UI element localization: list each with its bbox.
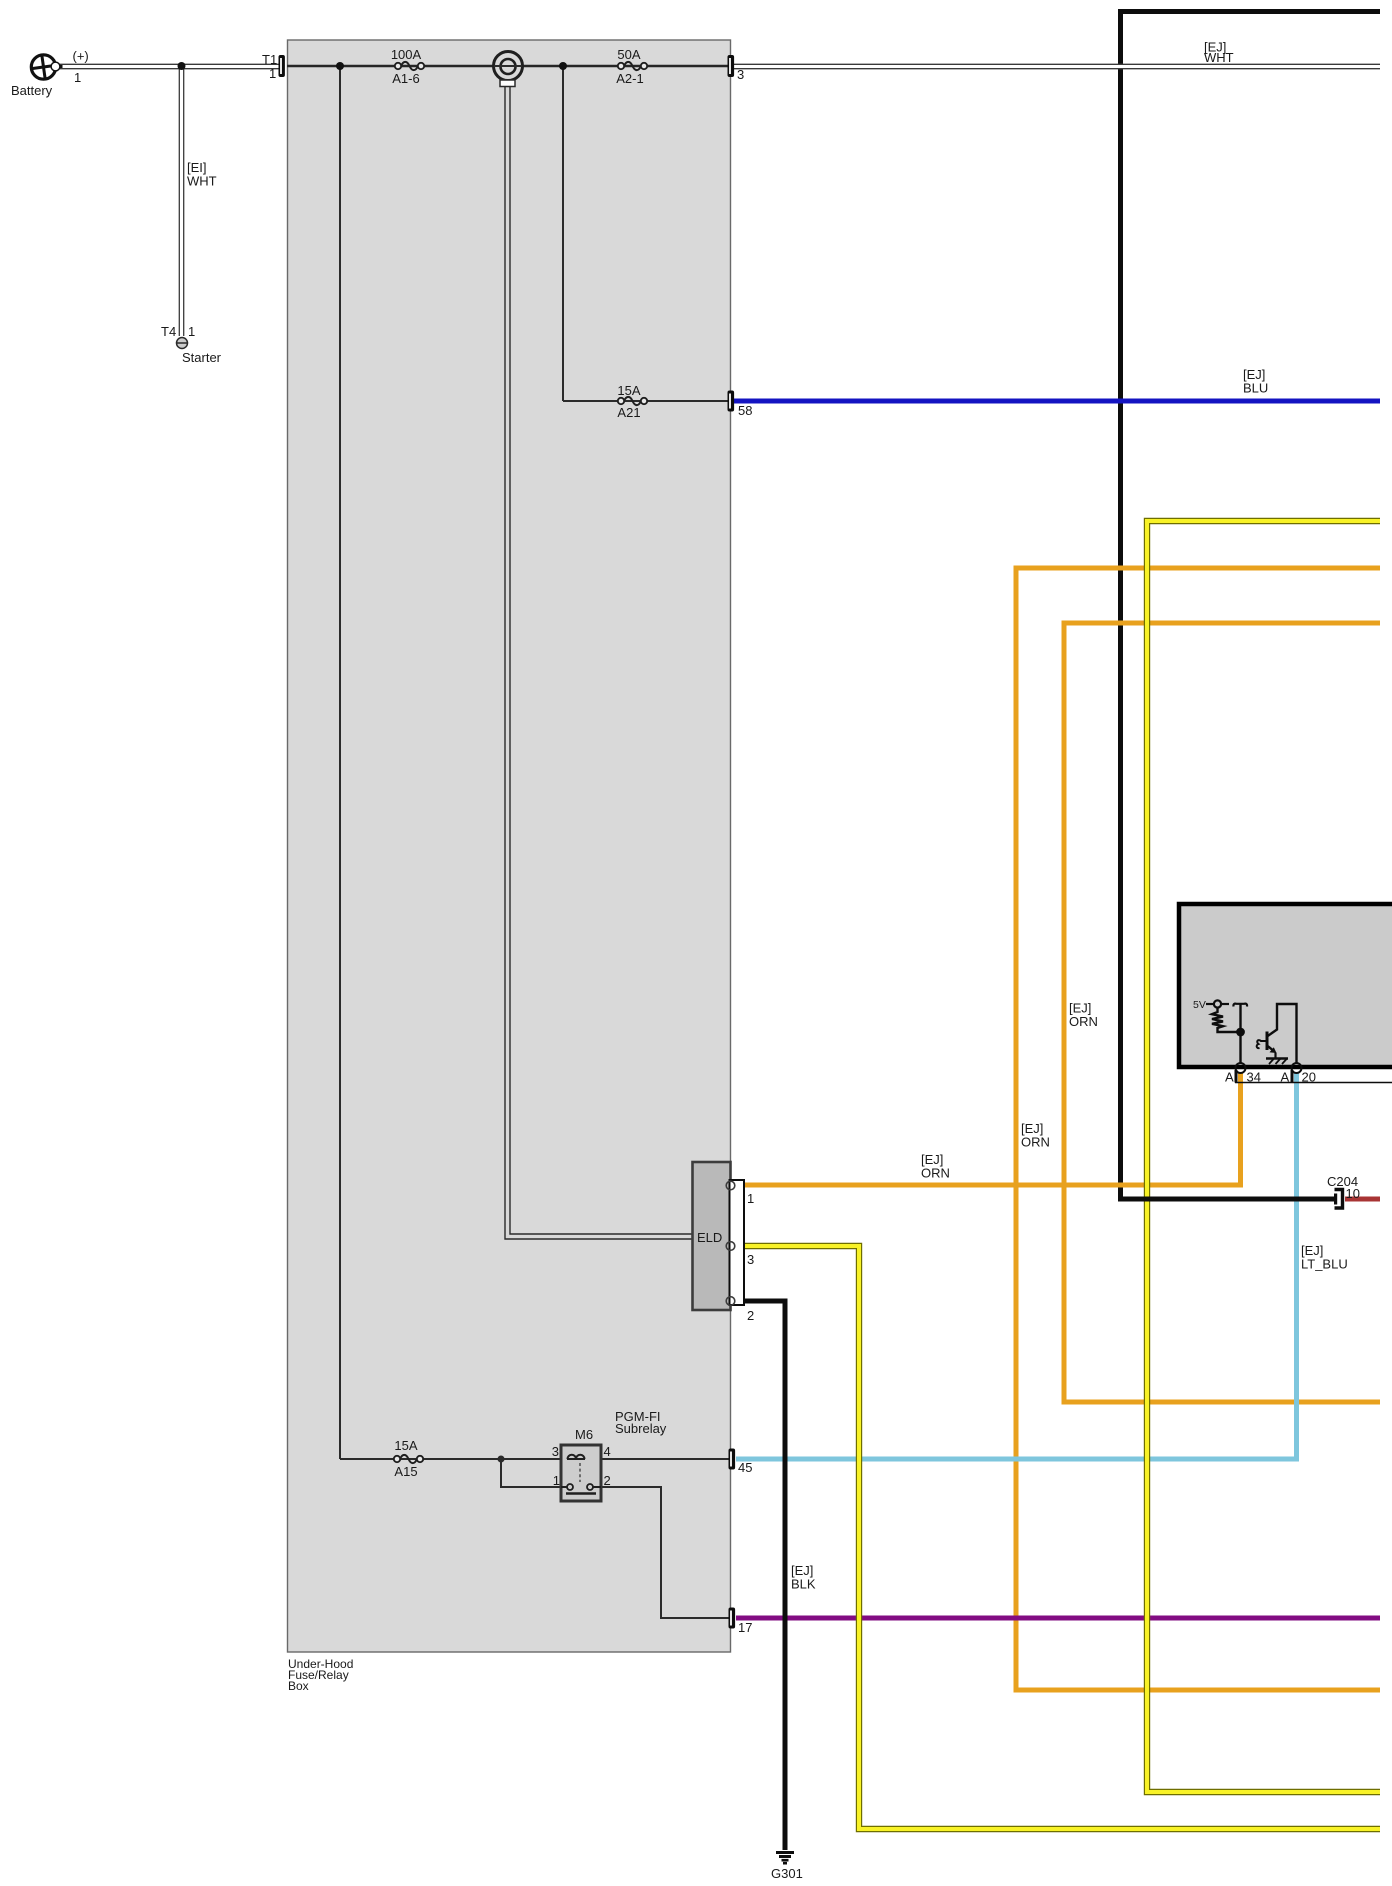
svg-text:1: 1 bbox=[747, 1191, 754, 1206]
wire: vertical feed x=340 from bus down to 15A A15 fuse row bbox=[339, 66, 341, 1459]
svg-text:ORN: ORN bbox=[1069, 1014, 1098, 1029]
svg-text:Subrelay: Subrelay bbox=[615, 1421, 667, 1436]
wire: junction drop to relay contact pin 1 bbox=[501, 1459, 566, 1487]
wire [EJ] WHT: pin 3 to right edge (white double line) bbox=[734, 65, 1380, 68]
svg-text:58: 58 bbox=[738, 403, 752, 418]
svg-text:ELD: ELD bbox=[697, 1230, 722, 1245]
ECM internals: transistor Q (NPN) bbox=[1257, 1004, 1297, 1064]
ground G301 bbox=[776, 1853, 794, 1864]
svg-text:50A: 50A bbox=[617, 47, 640, 62]
fuse 15A A21 bbox=[618, 397, 647, 405]
svg-text:ORN: ORN bbox=[1021, 1135, 1050, 1150]
wire [EI] WHT: battery junction down to starter T4 (double line) bbox=[180, 66, 183, 336]
svg-text:4: 4 bbox=[604, 1444, 611, 1459]
svg-text:1: 1 bbox=[553, 1473, 560, 1488]
ECM internals: to-other-circuit cap bbox=[1233, 1004, 1247, 1007]
svg-text:A: A bbox=[1225, 1070, 1234, 1085]
ECM/PCM internal circuit box bbox=[1179, 904, 1392, 1067]
svg-text:Starter: Starter bbox=[182, 350, 222, 365]
wire: relay contact pin2 out, down, to pin 17 bbox=[593, 1487, 729, 1618]
svg-text:1: 1 bbox=[74, 70, 81, 85]
wire: 15A A15 row to relay bbox=[340, 1458, 567, 1460]
ECM internals: transistor ground bbox=[1266, 1059, 1288, 1065]
ECM pin A34 connector bar bbox=[1235, 1070, 1238, 1083]
fuse 50A A2-1 bbox=[618, 62, 647, 70]
junction node at x=563 bbox=[559, 62, 567, 70]
svg-text:3: 3 bbox=[552, 1444, 559, 1459]
svg-text:A2-1: A2-1 bbox=[616, 71, 643, 86]
wire [EJ] BLU from pin 58 to right edge bbox=[734, 399, 1380, 404]
svg-text:LT_BLU: LT_BLU bbox=[1301, 1257, 1348, 1272]
wire [EJ] RED (dark red) from C204 to right edge bbox=[1345, 1197, 1380, 1202]
junction node at battery tap bbox=[178, 62, 186, 70]
connector bar pin 3 bbox=[728, 55, 735, 77]
svg-text:1: 1 bbox=[269, 66, 276, 81]
ECM pin A20 connector bar bbox=[1291, 1070, 1294, 1083]
ELD connector strip bbox=[730, 1180, 745, 1305]
wire: thick black vertical from top edge down (to C204 row) bbox=[1121, 12, 1381, 1200]
Under-Hood Fuse/Relay Box bbox=[288, 40, 731, 1652]
ELD box bbox=[693, 1162, 731, 1310]
ECM internals: 5V supply terminal bbox=[1206, 1000, 1229, 1007]
svg-text:15A: 15A bbox=[617, 383, 640, 398]
ECM connector A bracket line bbox=[1235, 1082, 1392, 1084]
relay dashed link bbox=[579, 1463, 581, 1482]
relay coil bbox=[567, 1458, 585, 1460]
svg-text:(+): (+) bbox=[73, 49, 89, 64]
connector bar T1 bbox=[279, 55, 285, 77]
wire: ELD sensor double-line from ring down into ELD box bbox=[505, 86, 693, 1239]
wire [EJ] LT_BLU: ECM pin A20 down x=1296.5, left to pin 45 bbox=[736, 1072, 1297, 1459]
wire [EJ] YEL 2: from right edge y=521 left, down x=1147, right out at y=1792 bbox=[1147, 521, 1380, 1792]
ELD pin 1 circle bbox=[726, 1181, 735, 1190]
svg-text:100A: 100A bbox=[391, 47, 422, 62]
wire: thick black horizontal to C204 pin 10 bbox=[1118, 1197, 1337, 1202]
svg-text:A: A bbox=[1281, 1070, 1290, 1085]
svg-text:WHT: WHT bbox=[187, 174, 217, 189]
wire: horizontal to 15A A21 fuse and pin 58 bbox=[563, 400, 728, 402]
wire [EJ] ORN C: from ELD pin 1 right, up to ECM pin A34 bbox=[734, 1072, 1241, 1185]
svg-text:17: 17 bbox=[738, 1620, 752, 1635]
svg-text:M6: M6 bbox=[575, 1427, 593, 1442]
ECM internals: sense line down to pin A34 bbox=[1239, 1004, 1241, 1064]
wire [EJ] BLK: from ELD pin 2 right, down x=785 to ground G301 bbox=[734, 1301, 785, 1850]
wire [EJ] ORN A: from right edge y=568 left, down x=1016, right out at y=1690 bbox=[1016, 568, 1380, 1690]
relay contact circles bbox=[561, 1486, 567, 1488]
ELD sensor ring on main bus bbox=[494, 52, 523, 87]
svg-text:2: 2 bbox=[747, 1308, 754, 1323]
fuse 100A A1-6 bbox=[395, 62, 424, 70]
svg-text:A1-6: A1-6 bbox=[392, 71, 419, 86]
starter T4 terminal symbol bbox=[177, 338, 188, 349]
wire: relay coil pin4 out to pin 45 bbox=[585, 1458, 729, 1460]
svg-text:1: 1 bbox=[188, 324, 195, 339]
ECM pin A20 circle bbox=[1292, 1063, 1302, 1073]
svg-text:5V: 5V bbox=[1193, 999, 1206, 1011]
ECM internals: junction dot bbox=[1236, 1028, 1245, 1037]
connector bar pin 58 bbox=[728, 391, 735, 412]
svg-text:Box: Box bbox=[288, 1679, 309, 1693]
junction dot A15 row bbox=[498, 1456, 505, 1463]
svg-text:G301: G301 bbox=[771, 1866, 803, 1881]
svg-text:10: 10 bbox=[1346, 1186, 1360, 1201]
C204 in-line connector bbox=[1334, 1190, 1343, 1209]
junction node at x=340 bbox=[336, 62, 344, 70]
svg-text:T4: T4 bbox=[161, 324, 176, 339]
svg-text:WHT: WHT bbox=[1204, 50, 1234, 65]
ELD pin 3 circle bbox=[726, 1242, 735, 1251]
svg-text:BLU: BLU bbox=[1243, 381, 1268, 396]
wire: main bus inside fuse box y=66 bbox=[287, 65, 728, 67]
connector bar pin 17 bbox=[729, 1608, 736, 1629]
svg-text:45: 45 bbox=[738, 1460, 752, 1475]
svg-text:A15: A15 bbox=[394, 1464, 417, 1479]
wire [EJ] YEL 1: from ELD pin 3 right, down x=859, right out at y=1829 bbox=[734, 1246, 1380, 1829]
svg-text:T1: T1 bbox=[262, 52, 277, 67]
ECM pin A34 circle bbox=[1236, 1063, 1246, 1073]
svg-text:15A: 15A bbox=[394, 1438, 417, 1453]
connector bar pin 45 bbox=[729, 1449, 736, 1470]
wire (+) battery to T1 (white double line) bbox=[54, 65, 279, 68]
svg-text:20: 20 bbox=[1302, 1070, 1316, 1085]
svg-text:2: 2 bbox=[604, 1473, 611, 1488]
relay contact bar bbox=[566, 1492, 596, 1495]
svg-text:34: 34 bbox=[1247, 1070, 1261, 1085]
svg-text:Battery: Battery bbox=[11, 83, 53, 98]
svg-text:3: 3 bbox=[737, 67, 744, 82]
wire [EJ] ORN B: from right edge y=623 left, down x=1064, right out at y=1402 bbox=[1064, 623, 1380, 1402]
wire [EJ] BLK (purple) from pin 17 to right edge bbox=[736, 1616, 1380, 1621]
ECM internals: pull-up resistor bbox=[1212, 1008, 1241, 1033]
svg-text:A21: A21 bbox=[617, 405, 640, 420]
svg-text:3: 3 bbox=[747, 1252, 754, 1267]
wire: vertical feed x=563 from bus down to 15A A21 fuse row bbox=[562, 66, 564, 401]
fuse 15A A15 bbox=[394, 1455, 423, 1463]
svg-text:ORN: ORN bbox=[921, 1166, 950, 1181]
PGM-FI Subrelay M6 box bbox=[561, 1445, 601, 1501]
svg-text:BLK: BLK bbox=[791, 1577, 816, 1592]
battery symbol bbox=[31, 55, 62, 80]
ELD pin 2 circle bbox=[726, 1297, 735, 1306]
